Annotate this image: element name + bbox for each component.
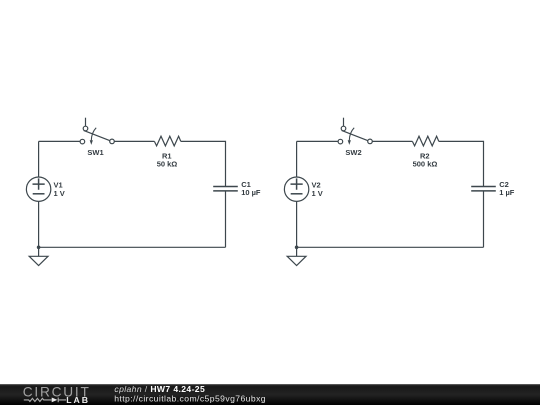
svg-text:SW1: SW1 [87, 148, 103, 157]
CircuitLab logo resistor zigzag [24, 398, 52, 401]
wire bottom horizontal [297, 246, 484, 248]
svg-text:1 V: 1 V [312, 189, 323, 198]
wire left vertical above V1 [38, 141, 40, 177]
ground [29, 247, 48, 265]
wire top-left horizontal (V1 to SW1) [39, 140, 81, 142]
switch SW1 [80, 118, 114, 157]
wire top-left horizontal (V2 to SW2) [297, 140, 339, 142]
svg-text:10 µF: 10 µF [241, 188, 261, 197]
CircuitLab logo diode [52, 398, 66, 403]
capacitor C1 (10 uF) [213, 180, 261, 197]
wire right vertical below C2 [483, 191, 485, 247]
voltage source V2 (1 V) [284, 177, 322, 201]
resistor R1 (50 kOhm) [154, 136, 180, 168]
svg-text:http://circuitlab.com/c5p59vg7: http://circuitlab.com/c5p59vg76ubxg [114, 393, 266, 403]
resistor R2 (500 kOhm) [412, 136, 438, 168]
wire left vertical above V2 [296, 141, 298, 177]
svg-text:1 µF: 1 µF [499, 188, 515, 197]
wire top-mid horizontal (SW1 to R1) [114, 140, 154, 142]
svg-text:500 kΩ: 500 kΩ [413, 159, 438, 168]
capacitor C2 (1 uF) [471, 180, 515, 197]
wire left vertical below V1 [38, 201, 40, 247]
switch SW2 [338, 118, 372, 157]
voltage source V1 (1 V) [26, 177, 64, 201]
wire top-right horizontal and right vertical (R2 to C2) [439, 141, 484, 186]
svg-text:50 kΩ: 50 kΩ [157, 159, 178, 168]
node junction at ground [295, 246, 299, 250]
ground [287, 247, 306, 265]
node junction at ground [37, 246, 41, 250]
svg-text:SW2: SW2 [345, 148, 361, 157]
footer bar [0, 384, 540, 405]
svg-text:1 V: 1 V [54, 189, 65, 198]
wire bottom horizontal [39, 246, 226, 248]
wire left vertical below V2 [296, 201, 298, 247]
wire right vertical below C1 [225, 191, 227, 247]
wire top-right horizontal and right vertical (R1 to C1) [181, 141, 226, 186]
svg-text:LAB: LAB [66, 395, 90, 405]
wire top-mid horizontal (SW2 to R2) [372, 140, 412, 142]
